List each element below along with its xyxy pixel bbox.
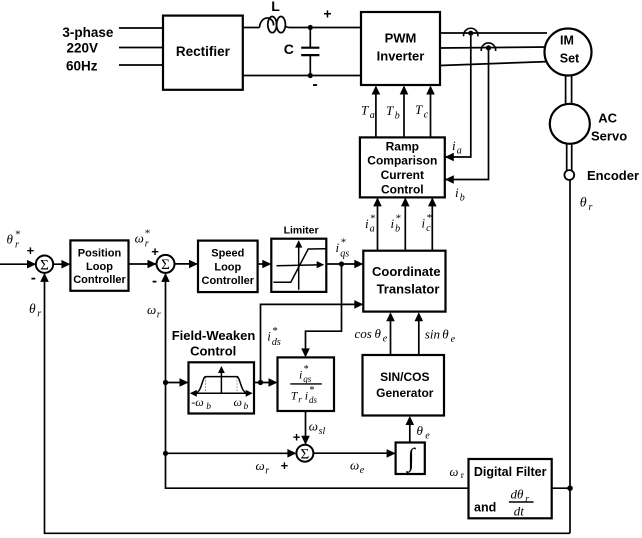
svg-text:qs: qs xyxy=(303,374,312,384)
svg-text:+: + xyxy=(281,458,289,473)
label theta_r shaft position xyxy=(580,196,593,214)
label ib xyxy=(455,185,465,204)
wire dc- bus rectifier to PWM inverter xyxy=(243,75,361,77)
svg-text:θ: θ xyxy=(442,326,449,341)
node dc- junction xyxy=(308,73,313,78)
wire theta_r bottom feedback to sum1 xyxy=(45,274,571,533)
block Rectifier xyxy=(163,16,243,90)
label AC Servo xyxy=(591,111,627,144)
label Field-Weaken Control xyxy=(172,328,256,358)
svg-text:θ: θ xyxy=(580,196,587,211)
svg-text:Loop: Loop xyxy=(86,261,113,273)
wire ia* reference into ramp block xyxy=(377,199,379,251)
svg-text:AC: AC xyxy=(598,111,617,126)
svg-text:-ω: -ω xyxy=(191,395,203,409)
svg-text:IM: IM xyxy=(560,33,574,47)
current sensor on phase b xyxy=(481,43,495,51)
svg-text:Digital: Digital xyxy=(474,465,512,479)
svg-text:i: i xyxy=(452,138,456,153)
svg-text:i: i xyxy=(267,328,271,343)
label sin theta_e xyxy=(425,326,456,345)
svg-text:T: T xyxy=(415,102,423,117)
summing junction sum3 xyxy=(296,445,313,463)
svg-text:ds: ds xyxy=(309,395,318,405)
wire slip omega_sl down to sum3 xyxy=(305,411,307,444)
svg-text:PWM: PWM xyxy=(385,31,417,46)
wire sum3 to integrator xyxy=(313,452,394,454)
label omega_r left of sum3 xyxy=(256,458,270,477)
svg-text:SIN/COS: SIN/COS xyxy=(380,370,429,384)
svg-text:C: C xyxy=(284,41,294,57)
svg-text:θ: θ xyxy=(29,301,36,316)
current sensor on phase a xyxy=(464,28,478,36)
inductor L xyxy=(260,17,290,33)
wire sin theta_e to CT xyxy=(418,314,420,355)
label -omega_b xyxy=(191,395,211,412)
svg-text:e: e xyxy=(383,333,388,344)
svg-text:θ: θ xyxy=(375,326,382,341)
wire phase c PWM to IM xyxy=(440,62,550,66)
encoder circle xyxy=(564,170,574,180)
svg-text:Controller: Controller xyxy=(73,274,126,286)
label omega_b xyxy=(234,395,249,412)
svg-text:i: i xyxy=(336,240,340,255)
label iqs* xyxy=(336,237,350,260)
block Ramp Comparison Current Control xyxy=(360,137,445,197)
wire ic* reference xyxy=(431,199,433,251)
wire gate signal Ta with arrow into PWM xyxy=(375,87,377,137)
svg-text:i: i xyxy=(299,367,302,381)
svg-text:*: * xyxy=(144,227,150,239)
svg-text:ω: ω xyxy=(147,302,156,317)
svg-text:b: b xyxy=(460,192,465,203)
svg-text:Set: Set xyxy=(560,51,580,65)
svg-text:Position: Position xyxy=(78,247,122,259)
svg-text:-: - xyxy=(312,76,317,93)
svg-text:Encoder: Encoder xyxy=(587,168,639,183)
svg-text:r: r xyxy=(37,308,41,319)
svg-text:i: i xyxy=(455,185,459,200)
svg-text:r: r xyxy=(298,394,302,404)
svg-text:-: - xyxy=(152,273,157,290)
svg-text:cos: cos xyxy=(355,326,372,341)
label ib* xyxy=(391,213,402,235)
svg-text:Inverter: Inverter xyxy=(377,49,425,64)
svg-text:Control: Control xyxy=(190,344,236,359)
wire omega_r into sum3 xyxy=(166,452,296,454)
wire digital filter right connection xyxy=(552,487,570,489)
wire sum2 to Speed Loop Controller xyxy=(175,263,199,265)
svg-text:qs: qs xyxy=(340,248,349,259)
svg-text:+: + xyxy=(27,243,35,258)
svg-text:Coordinate: Coordinate xyxy=(372,264,441,279)
node branch to field-weaken xyxy=(163,380,168,385)
label Tb xyxy=(386,103,400,122)
label omega_r* xyxy=(135,227,151,249)
svg-text:T: T xyxy=(386,103,394,118)
svg-text:Σ: Σ xyxy=(40,257,49,273)
label omega_e xyxy=(350,457,365,476)
wire ia feedback from sensor a xyxy=(446,36,471,157)
svg-text:+: + xyxy=(151,244,159,259)
svg-text:ω: ω xyxy=(350,457,359,472)
wire limiter output iqs* to Coordinate Translator xyxy=(326,263,363,265)
svg-text:Σ: Σ xyxy=(161,257,170,273)
svg-text:Rectifier: Rectifier xyxy=(176,44,231,59)
wire ib feedback from sensor b xyxy=(446,51,489,180)
wire sum1 to Position Loop Controller xyxy=(53,263,70,265)
wire into field-weaken xyxy=(166,382,188,384)
block Digital Filter and dtheta_r/dt xyxy=(469,459,552,518)
svg-text:*: * xyxy=(272,325,278,337)
svg-text:a: a xyxy=(370,110,375,121)
svg-text:Comparison: Comparison xyxy=(367,154,437,168)
svg-text:b: b xyxy=(244,402,249,412)
svg-text:+: + xyxy=(293,429,301,444)
svg-text:ω: ω xyxy=(256,458,265,473)
wire dc+ bus inductor to PWM inverter xyxy=(290,27,362,29)
block Position Loop Controller xyxy=(70,240,128,290)
label theta_e xyxy=(417,423,431,442)
svg-text:i: i xyxy=(305,388,308,402)
wire theta_e integrator up to SIN/COS xyxy=(409,418,411,443)
svg-text:Generator: Generator xyxy=(376,386,434,400)
block integrator xyxy=(396,443,425,475)
wire FW output to divider block xyxy=(254,382,276,384)
svg-text:Filter: Filter xyxy=(516,465,547,479)
svg-text:i: i xyxy=(422,215,426,230)
label Tc xyxy=(415,102,429,121)
wire theta_r* input to sum1 xyxy=(0,263,37,265)
block Field-Weaken Control with profile curve xyxy=(189,362,255,413)
svg-text:220V: 220V xyxy=(67,41,99,56)
wire ids* to CT lower input xyxy=(261,304,363,382)
wire PLC to sum2 xyxy=(129,263,157,265)
svg-text:a: a xyxy=(370,223,375,234)
svg-text:Servo: Servo xyxy=(591,129,627,144)
svg-text:Controller: Controller xyxy=(202,275,255,287)
svg-text:60Hz: 60Hz xyxy=(66,58,98,73)
svg-text:b: b xyxy=(206,402,211,412)
block PWM Inverter xyxy=(361,12,440,85)
svg-text:b: b xyxy=(395,110,400,121)
svg-text:dt: dt xyxy=(514,503,525,518)
svg-text:Σ: Σ xyxy=(301,446,310,462)
label omega_r below sum2 xyxy=(147,302,161,321)
wire gate signal Tb xyxy=(403,87,405,137)
svg-text:Translator: Translator xyxy=(377,282,440,297)
svg-text:-: - xyxy=(31,269,36,286)
wire phase a PWM to IM xyxy=(440,32,547,34)
svg-text:L: L xyxy=(271,0,280,14)
block slip calculator iqs*/(Tr ids*) xyxy=(278,357,335,411)
svg-text:r: r xyxy=(157,309,161,320)
svg-text:r: r xyxy=(589,202,593,213)
svg-text:r: r xyxy=(525,495,529,505)
svg-text:ω: ω xyxy=(450,465,459,479)
wire omega_r feedback vertical spine xyxy=(166,274,469,488)
wire 3-phase input lines xyxy=(119,28,163,65)
label Ta xyxy=(361,102,375,121)
svg-text:Field-Weaken: Field-Weaken xyxy=(172,328,256,343)
label ic* xyxy=(422,212,433,234)
wire rectifier output to inductor xyxy=(243,27,260,29)
svg-text:3-phase: 3-phase xyxy=(62,25,114,40)
capacitor C xyxy=(301,28,319,76)
label ia* xyxy=(365,213,376,235)
label theta_r* reference input xyxy=(7,229,21,251)
svg-text:e: e xyxy=(425,430,430,441)
wire theta_r from encoder down right side xyxy=(569,180,571,533)
svg-text:ω: ω xyxy=(309,418,318,433)
wire ib* reference xyxy=(404,199,406,251)
svg-text:r: r xyxy=(265,465,269,476)
svg-text:Current: Current xyxy=(381,168,424,182)
wire cos theta_e to CT xyxy=(390,314,392,355)
node branch to slip sum xyxy=(163,451,168,456)
wire SLC to limiter xyxy=(258,263,272,265)
svg-text:Control: Control xyxy=(381,183,424,197)
wire phase b PWM to IM xyxy=(440,47,548,48)
svg-text:θ: θ xyxy=(417,423,424,438)
svg-text:e: e xyxy=(451,334,456,345)
svg-text:c: c xyxy=(426,223,431,234)
shaft IM to AC servo xyxy=(566,76,572,105)
svg-text:and: and xyxy=(474,501,496,515)
svg-text:Limiter: Limiter xyxy=(284,225,319,237)
node field-weaken output junction xyxy=(258,380,263,385)
label omega_sl xyxy=(309,418,326,437)
block Speed Loop Controller xyxy=(198,241,258,293)
node dc+ junction xyxy=(308,25,313,30)
svg-text:c: c xyxy=(424,109,429,120)
svg-text:b: b xyxy=(395,223,400,234)
svg-text:e: e xyxy=(360,465,365,476)
block SIN/COS Generator xyxy=(363,355,445,416)
shaft AC servo to encoder xyxy=(567,144,572,171)
svg-text:ω: ω xyxy=(234,395,242,409)
svg-text:ds: ds xyxy=(272,337,281,348)
svg-text:Speed: Speed xyxy=(211,248,244,260)
summing junction sum2 xyxy=(157,255,175,273)
svg-text:i: i xyxy=(391,216,395,231)
svg-text:*: * xyxy=(340,237,346,249)
label ids* xyxy=(267,325,281,348)
svg-text:ω: ω xyxy=(135,231,144,246)
label omega_r output of digital filter xyxy=(450,465,465,481)
svg-text:Loop: Loop xyxy=(214,262,241,274)
motor IM Set xyxy=(545,29,592,76)
block Limiter with saturation curve xyxy=(271,239,326,292)
svg-text:r: r xyxy=(15,240,19,251)
node iqs* branch junction xyxy=(339,261,344,266)
block Coordinate Translator xyxy=(363,251,445,312)
svg-text:T: T xyxy=(361,102,369,117)
wire iqs* branch down to divider block xyxy=(306,264,342,356)
svg-text:Ramp: Ramp xyxy=(386,139,419,153)
node theta_r to digital filter junction xyxy=(567,485,573,491)
label theta_r feedback bottom left xyxy=(29,301,41,320)
summing junction sum1 xyxy=(36,256,53,274)
node 3-phase source labels xyxy=(62,25,114,73)
svg-text:r: r xyxy=(145,239,149,250)
svg-text:θ: θ xyxy=(7,232,14,247)
svg-text:sin: sin xyxy=(425,326,440,341)
wire gate signal Tc xyxy=(430,87,432,137)
svg-text:+: + xyxy=(323,6,331,22)
svg-text:a: a xyxy=(457,145,462,156)
load machine AC Servo xyxy=(550,104,590,144)
svg-text:i: i xyxy=(365,216,369,231)
svg-text:sl: sl xyxy=(319,426,326,437)
svg-text:dθ: dθ xyxy=(511,487,525,502)
label ia xyxy=(452,138,462,157)
label cos theta_e xyxy=(355,326,388,345)
